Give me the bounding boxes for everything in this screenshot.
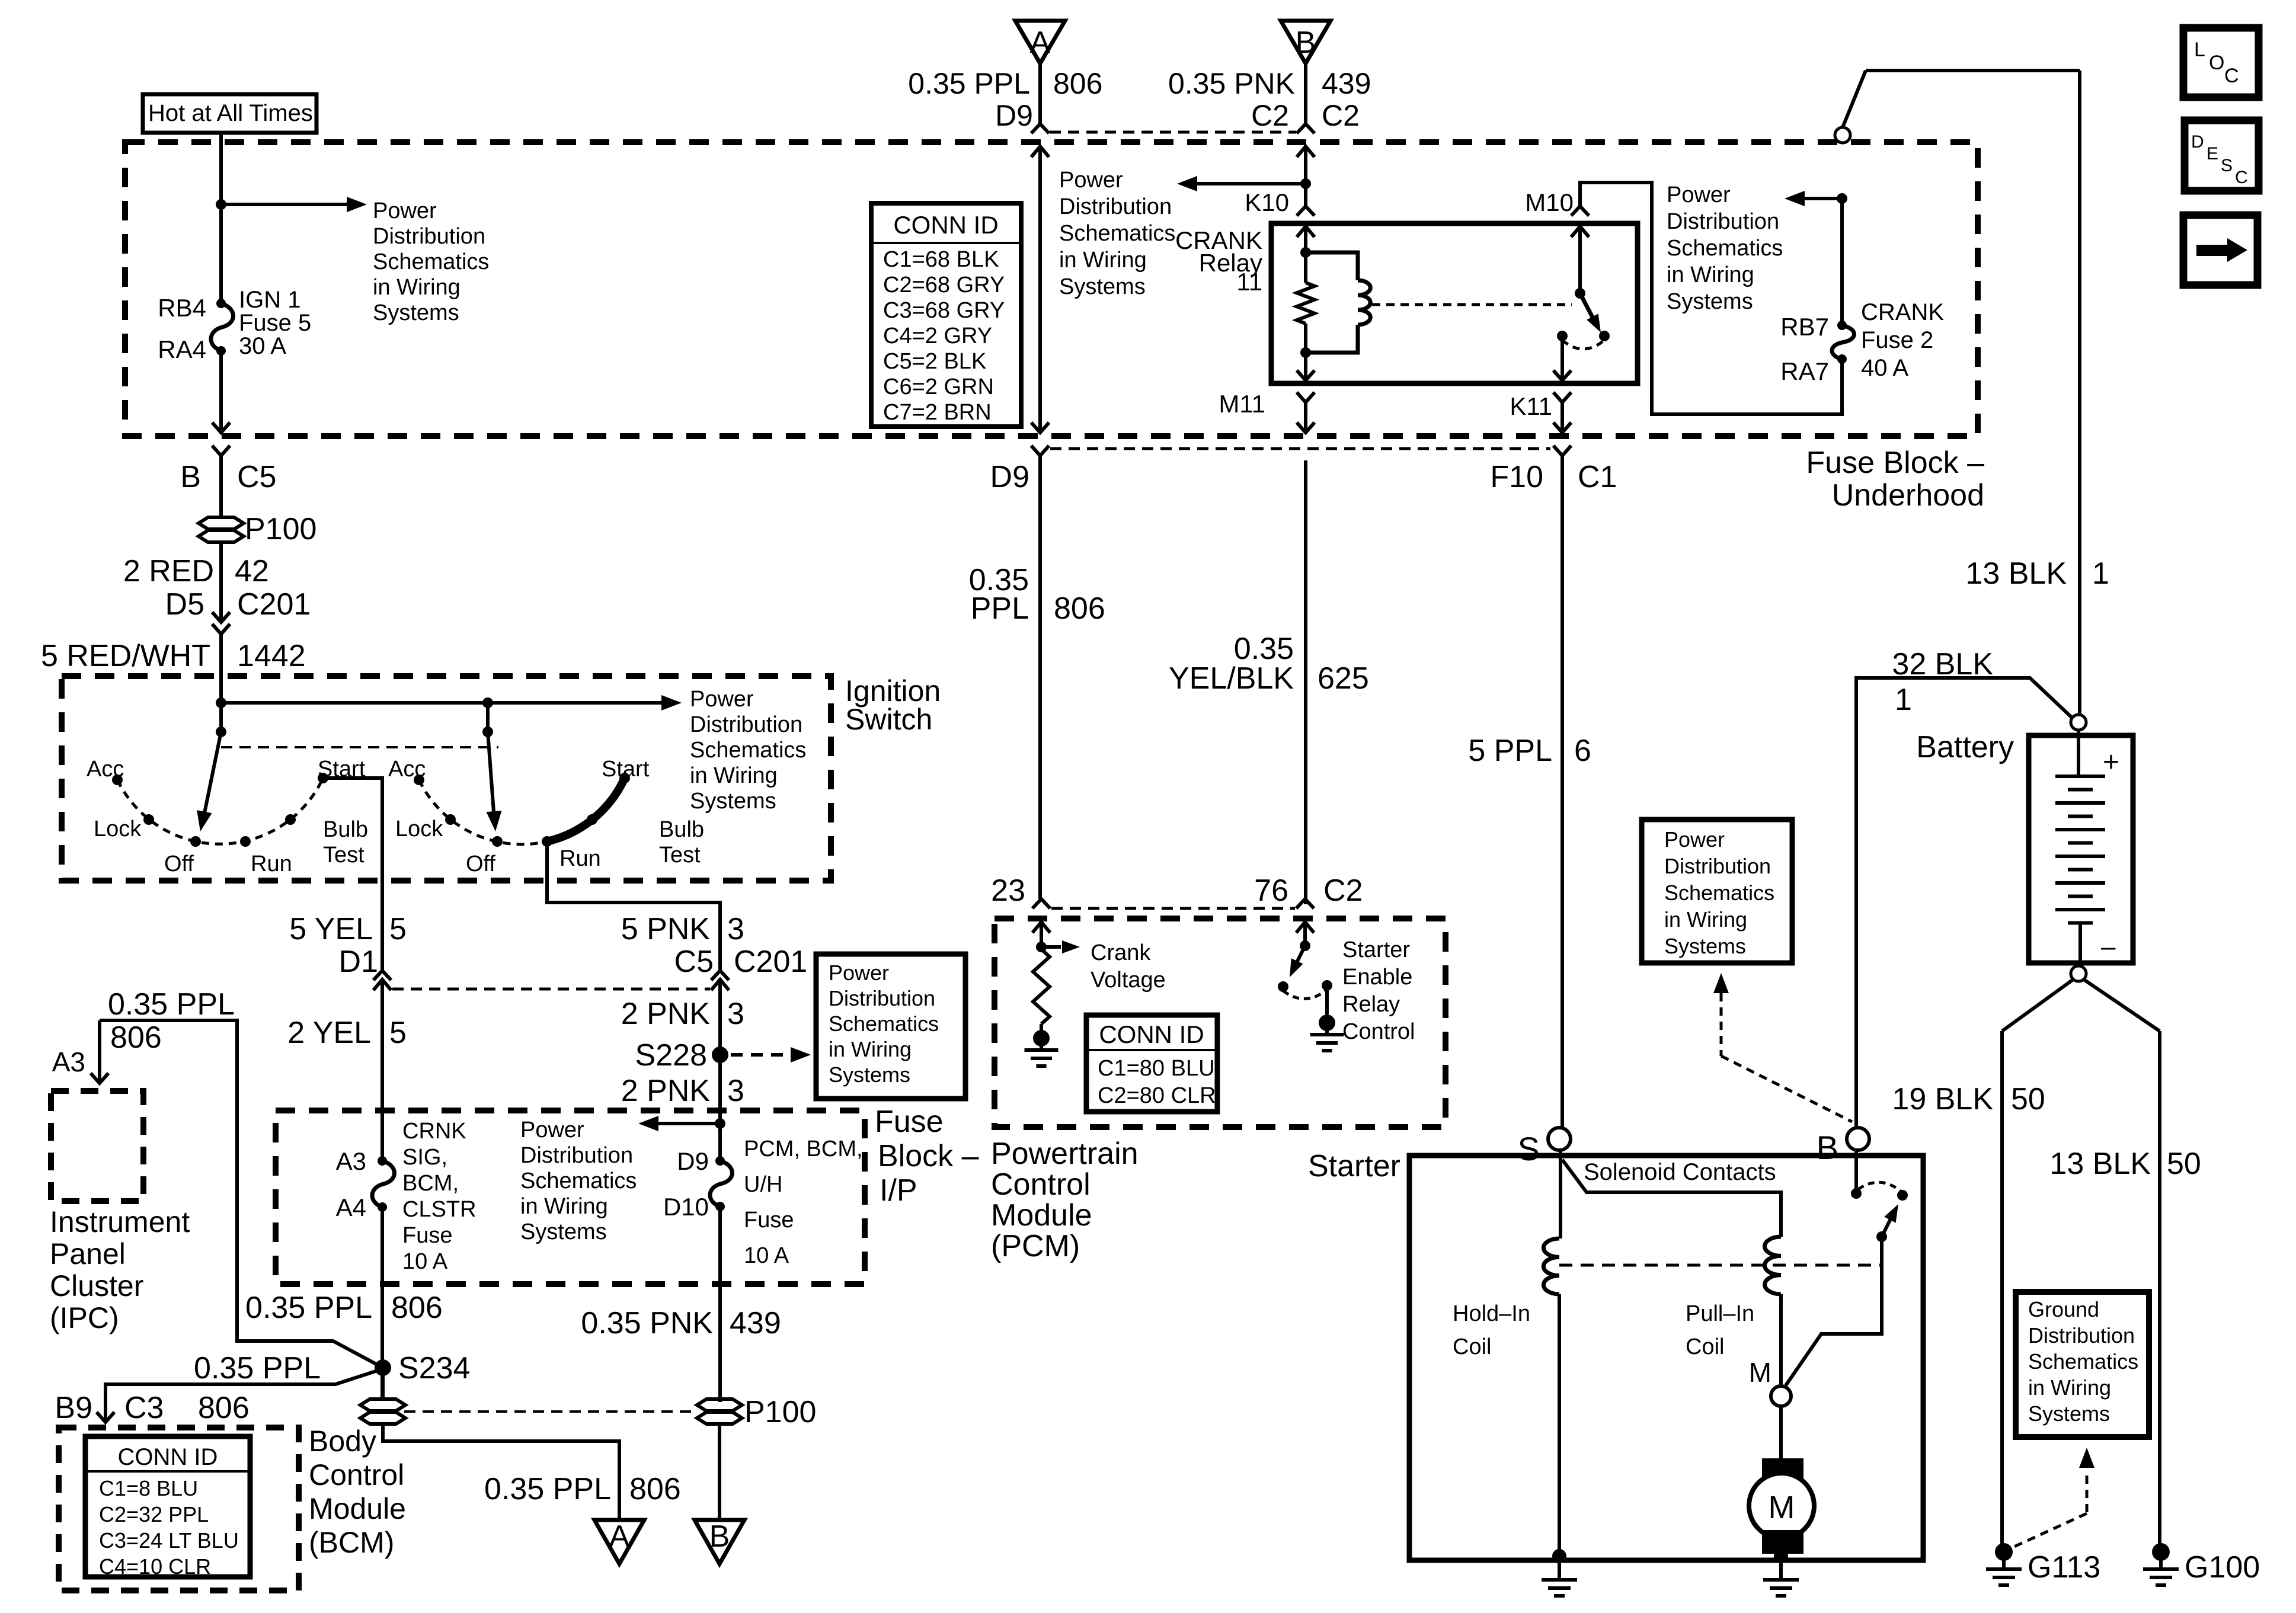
svg-text:6: 6 [1574,734,1591,768]
svg-text:Acc: Acc [87,757,124,782]
svg-text:Start: Start [602,757,650,782]
svg-text:G113: G113 [2028,1550,2100,1585]
svg-text:C: C [2224,65,2239,87]
svg-text:Module: Module [309,1492,406,1525]
svg-text:Bulb: Bulb [659,817,704,842]
svg-text:Test: Test [323,843,364,868]
svg-text:806: 806 [1054,591,1105,626]
svg-text:L: L [2194,39,2205,61]
svg-text:Systems: Systems [1059,274,1146,299]
svg-text:O: O [2209,52,2224,74]
svg-text:Crank: Crank [1091,940,1151,965]
svg-text:CRANK: CRANK [1861,299,1944,325]
svg-text:C6=2 GRN: C6=2 GRN [883,375,994,399]
svg-text:Hot at All Times: Hot at All Times [148,100,313,126]
svg-text:CONN ID: CONN ID [1099,1020,1204,1048]
svg-text:Off: Off [466,852,495,876]
svg-text:Off: Off [164,852,194,876]
svg-text:RA7: RA7 [1780,357,1829,385]
svg-text:Power: Power [1059,168,1123,193]
svg-text:32 BLK: 32 BLK [1892,647,1993,681]
svg-text:M10: M10 [1525,188,1574,216]
svg-text:Schematics: Schematics [690,738,806,763]
svg-text:Starter: Starter [1342,937,1410,962]
svg-text:–: – [2101,932,2116,961]
svg-text:C3=24 LT BLU: C3=24 LT BLU [99,1528,239,1553]
svg-text:13 BLK: 13 BLK [2049,1147,2151,1181]
svg-text:IGN 1: IGN 1 [239,287,300,313]
svg-text:K10: K10 [1245,188,1289,216]
svg-text:SIG,: SIG, [402,1145,447,1170]
svg-text:Distribution: Distribution [1667,209,1779,234]
svg-text:D10: D10 [663,1193,709,1221]
svg-text:C2=80 CLR: C2=80 CLR [1098,1083,1216,1108]
svg-text:0.35 PNK: 0.35 PNK [1168,67,1295,100]
svg-text:in Wiring: in Wiring [829,1037,912,1061]
svg-text:Power: Power [1667,183,1731,207]
svg-text:Fuse: Fuse [875,1105,944,1139]
svg-text:C2: C2 [1322,99,1360,132]
svg-text:D: D [2191,132,2204,152]
svg-text:D1: D1 [339,945,378,979]
svg-text:0.35 PPL: 0.35 PPL [908,67,1030,100]
svg-text:0.35 PNK: 0.35 PNK [581,1306,713,1340]
svg-text:Powertrain: Powertrain [991,1137,1139,1171]
svg-text:11: 11 [1236,268,1262,296]
svg-text:S228: S228 [635,1038,707,1073]
svg-text:P100: P100 [245,512,316,546]
svg-text:in Wiring: in Wiring [1059,248,1147,273]
svg-text:Control: Control [1342,1019,1415,1044]
svg-text:U/H: U/H [744,1172,782,1197]
svg-text:30 A: 30 A [239,333,286,359]
svg-text:P100: P100 [744,1395,816,1429]
svg-text:Distribution: Distribution [373,224,485,249]
svg-text:439: 439 [1322,67,1371,100]
svg-text:Power: Power [520,1118,584,1142]
svg-text:0.35 PPL: 0.35 PPL [108,987,235,1022]
svg-text:CRNK: CRNK [402,1119,466,1144]
svg-text:YEL/BLK: YEL/BLK [1169,661,1294,696]
svg-text:PPL: PPL [971,591,1029,626]
svg-text:Distribution: Distribution [690,712,802,737]
svg-text:42: 42 [235,554,269,588]
svg-text:Schematics: Schematics [829,1012,939,1036]
svg-text:(BCM): (BCM) [309,1526,394,1559]
svg-text:Systems: Systems [2028,1401,2110,1426]
svg-text:Switch: Switch [845,703,932,736]
svg-text:3: 3 [727,912,744,946]
svg-text:(IPC): (IPC) [50,1301,119,1334]
svg-text:C201: C201 [237,587,311,622]
svg-text:C5: C5 [237,460,276,494]
svg-text:C2: C2 [1323,873,1363,908]
svg-text:Distribution: Distribution [1059,194,1172,219]
svg-text:0.35 PPL: 0.35 PPL [245,1291,372,1325]
svg-text:Schematics: Schematics [1059,221,1175,246]
svg-text:5 PPL: 5 PPL [1468,734,1552,768]
svg-text:C1=80 BLU: C1=80 BLU [1098,1056,1215,1081]
svg-text:23: 23 [991,873,1025,908]
svg-text:Solenoid Contacts: Solenoid Contacts [1584,1159,1776,1185]
svg-text:Run: Run [559,846,601,871]
svg-text:2 PNK: 2 PNK [621,1074,711,1108]
svg-text:A: A [609,1519,630,1554]
svg-text:CONN ID: CONN ID [118,1444,218,1470]
svg-text:625: 625 [1318,661,1369,696]
svg-text:10 A: 10 A [402,1249,448,1274]
svg-text:Schematics: Schematics [520,1169,637,1193]
svg-text:S: S [2221,156,2233,175]
svg-text:G100: G100 [2185,1550,2260,1585]
svg-text:A3: A3 [336,1147,366,1175]
svg-text:PCM, BCM,: PCM, BCM, [744,1137,863,1161]
svg-text:Instrument: Instrument [50,1205,190,1238]
svg-text:(PCM): (PCM) [991,1229,1080,1263]
svg-text:Schematics: Schematics [2028,1349,2138,1374]
svg-text:C2: C2 [1251,99,1289,132]
svg-text:Lock: Lock [395,817,443,841]
svg-text:C2=32 PPL: C2=32 PPL [99,1502,209,1526]
svg-text:1: 1 [2092,556,2109,591]
svg-text:D9: D9 [990,460,1029,494]
svg-text:5 PNK: 5 PNK [621,912,711,946]
svg-text:Enable: Enable [1342,965,1412,990]
svg-text:Systems: Systems [520,1220,607,1244]
svg-text:C1: C1 [1578,460,1617,494]
svg-text:50: 50 [2011,1082,2045,1116]
svg-text:in Wiring: in Wiring [520,1194,608,1219]
svg-text:Underhood: Underhood [1832,478,1984,513]
svg-text:Battery: Battery [1916,730,2014,764]
svg-text:Control: Control [991,1167,1091,1202]
svg-text:C7=2 BRN: C7=2 BRN [883,400,992,425]
svg-text:C4=2 GRY: C4=2 GRY [883,324,992,348]
svg-text:D5: D5 [165,587,204,622]
svg-text:Voltage: Voltage [1091,968,1166,993]
svg-text:S: S [1518,1130,1540,1167]
svg-text:806: 806 [391,1291,443,1325]
svg-text:D9: D9 [677,1147,709,1175]
svg-text:A3: A3 [52,1046,85,1077]
svg-text:in Wiring: in Wiring [1664,907,1747,932]
svg-text:+: + [2103,747,2119,778]
svg-text:Cluster: Cluster [50,1269,143,1302]
svg-text:M: M [1749,1357,1771,1388]
svg-text:5 YEL: 5 YEL [289,912,373,946]
svg-text:S234: S234 [398,1351,470,1385]
svg-text:Distribution: Distribution [829,986,935,1010]
svg-text:2 YEL: 2 YEL [287,1016,371,1050]
svg-text:2 RED: 2 RED [123,554,214,588]
svg-text:5: 5 [389,912,407,946]
svg-text:76: 76 [1254,873,1288,908]
svg-text:Block –: Block – [878,1139,979,1173]
svg-text:Fuse: Fuse [402,1223,452,1248]
svg-text:19 BLK: 19 BLK [1892,1082,1993,1116]
svg-text:in Wiring: in Wiring [1667,263,1754,287]
svg-text:C4=10 CLR: C4=10 CLR [99,1554,211,1579]
svg-text:Systems: Systems [373,300,459,325]
svg-text:Hold–In: Hold–In [1453,1301,1530,1326]
svg-text:3: 3 [727,1074,744,1108]
svg-text:Pull–In: Pull–In [1686,1301,1754,1326]
svg-text:Body: Body [309,1425,376,1458]
svg-text:5 RED/WHT: 5 RED/WHT [41,639,210,673]
svg-text:Coil: Coil [1686,1334,1724,1359]
svg-text:Control: Control [309,1458,404,1492]
svg-text:RA4: RA4 [158,335,206,363]
svg-text:Fuse 5: Fuse 5 [239,310,311,336]
svg-text:M: M [1769,1490,1795,1525]
svg-text:40 A: 40 A [1861,355,1908,381]
svg-text:Schematics: Schematics [373,249,489,274]
svg-text:3: 3 [727,997,744,1031]
svg-text:Systems: Systems [690,789,776,814]
svg-text:C5=2 BLK: C5=2 BLK [883,349,986,374]
svg-text:Schematics: Schematics [1664,881,1774,905]
svg-text:10 A: 10 A [744,1243,789,1268]
svg-text:806: 806 [1053,67,1102,100]
svg-text:Systems: Systems [1664,934,1746,958]
svg-text:Lock: Lock [94,817,142,841]
svg-text:C3: C3 [124,1391,164,1425]
svg-text:C1=8 BLU: C1=8 BLU [99,1476,198,1500]
svg-text:D9: D9 [995,99,1033,132]
svg-text:B: B [180,460,201,494]
svg-text:Systems: Systems [1667,289,1753,314]
svg-text:in Wiring: in Wiring [690,763,778,788]
svg-text:C5: C5 [674,945,714,979]
svg-text:in Wiring: in Wiring [373,275,461,300]
svg-text:Bulb: Bulb [323,817,368,842]
svg-text:Relay: Relay [1342,992,1400,1017]
svg-text:Power: Power [690,687,754,712]
svg-text:CONN ID: CONN ID [893,211,998,239]
svg-text:RB4: RB4 [158,294,206,322]
svg-text:0.35 PPL: 0.35 PPL [484,1472,611,1506]
svg-text:Module: Module [991,1198,1092,1233]
svg-text:Distribution: Distribution [2028,1323,2135,1348]
svg-text:439: 439 [730,1306,781,1340]
svg-text:1: 1 [1895,683,1912,717]
svg-text:Power: Power [829,961,889,985]
svg-text:Fuse Block –: Fuse Block – [1806,446,1984,480]
svg-text:Power: Power [373,199,437,223]
svg-text:B: B [1817,1129,1838,1166]
svg-text:Fuse 2: Fuse 2 [1861,327,1933,353]
svg-text:Distribution: Distribution [520,1143,633,1168]
svg-text:1442: 1442 [237,639,306,673]
svg-text:Acc: Acc [388,757,426,782]
svg-text:Starter: Starter [1308,1149,1400,1183]
svg-text:50: 50 [2167,1147,2201,1181]
svg-text:C201: C201 [734,945,807,979]
svg-text:13 BLK: 13 BLK [1965,556,2067,591]
svg-text:Distribution: Distribution [1664,854,1771,878]
svg-text:806: 806 [629,1472,681,1506]
svg-text:A: A [1030,25,1051,60]
svg-text:Schematics: Schematics [1667,236,1783,261]
svg-text:Ground: Ground [2028,1297,2099,1321]
svg-text:0.35 PPL: 0.35 PPL [194,1351,321,1385]
svg-text:C2=68 GRY: C2=68 GRY [883,273,1005,297]
svg-text:M11: M11 [1219,390,1265,418]
svg-text:C3=68 GRY: C3=68 GRY [883,298,1005,323]
svg-text:5: 5 [389,1016,407,1050]
svg-text:Power: Power [1664,827,1725,852]
svg-text:C1=68 BLK: C1=68 BLK [883,247,999,272]
svg-text:A4: A4 [336,1193,366,1221]
svg-text:BCM,: BCM, [402,1171,459,1196]
svg-text:K11: K11 [1510,392,1552,420]
svg-text:F10: F10 [1490,460,1543,494]
svg-text:B9: B9 [55,1391,92,1425]
svg-text:Systems: Systems [829,1062,910,1087]
svg-text:Coil: Coil [1453,1334,1491,1359]
svg-text:B: B [1296,25,1316,60]
svg-text:Fuse: Fuse [744,1208,794,1233]
svg-text:2 PNK: 2 PNK [621,997,711,1031]
svg-text:in Wiring: in Wiring [2028,1375,2111,1400]
svg-text:CLSTR: CLSTR [402,1197,477,1222]
svg-text:B: B [709,1519,730,1554]
svg-text:I/P: I/P [880,1173,917,1208]
svg-text:E: E [2207,144,2218,164]
svg-text:Panel: Panel [50,1237,126,1270]
svg-text:806: 806 [110,1020,162,1055]
svg-text:C: C [2235,168,2248,187]
svg-text:RB7: RB7 [1780,313,1829,341]
svg-text:806: 806 [198,1391,250,1425]
svg-text:Run: Run [251,852,292,876]
svg-text:Test: Test [659,843,701,868]
